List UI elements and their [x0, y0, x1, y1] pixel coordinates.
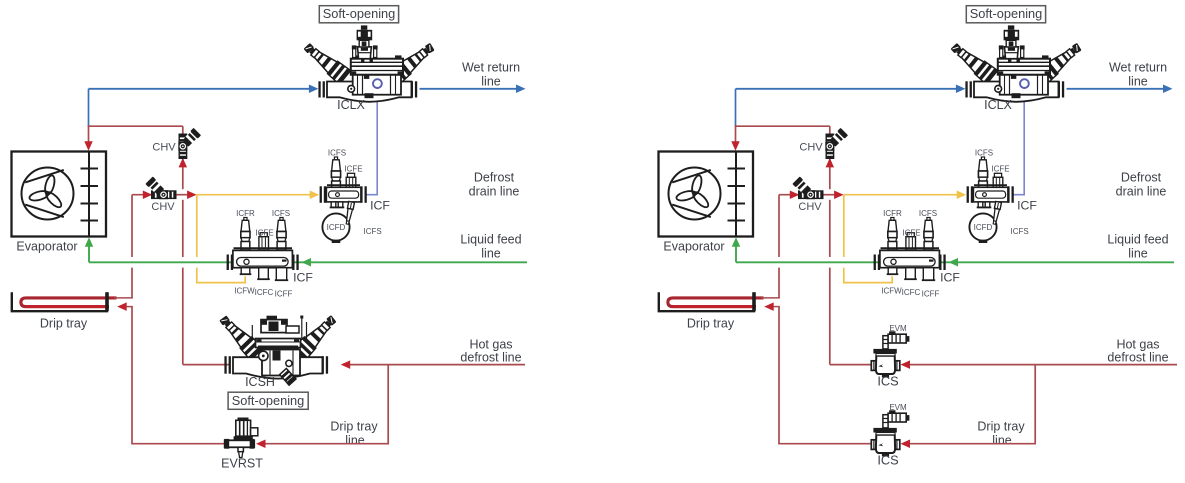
svg-text:EVRST: EVRST: [221, 457, 263, 471]
servo valve ICS1: [871, 331, 909, 377]
svg-text:ICSH: ICSH: [245, 375, 275, 389]
valve ICSH: [216, 312, 341, 387]
wire red drip tray drain to EVRST: [131, 443, 225, 445]
svg-text:EVM: EVM: [889, 324, 907, 333]
servo valve ICS2: [871, 410, 909, 456]
right diagram half: [659, 6, 1175, 448]
wire red drip tray line (right): [910, 443, 1036, 445]
wire red hot gas defrost line (right): [910, 364, 1177, 366]
label box Soft-opening (ICSH): [228, 392, 308, 409]
svg-text:Soft-opening: Soft-opening: [232, 393, 305, 408]
wire red branch to ICS1 left port: [830, 364, 872, 366]
wire red branch to ICSH left port: [183, 364, 229, 366]
wire red hot gas defrost line: [350, 364, 525, 366]
wire red drip tray drain to ICS2: [778, 443, 872, 445]
svg-text:ICS: ICS: [877, 453, 898, 468]
arrow red into ICSH right port: [341, 360, 351, 369]
svg-text:ICS: ICS: [877, 374, 898, 389]
svg-text:EVM: EVM: [889, 403, 907, 412]
arrow red into ICS1: [901, 360, 911, 369]
arrow red into ICS2: [901, 439, 911, 448]
wire red drip tray line: [265, 443, 389, 445]
left diagram half: [12, 6, 528, 448]
solenoid valve EVRST: [224, 418, 258, 458]
arrow red into EVRST: [256, 439, 266, 448]
